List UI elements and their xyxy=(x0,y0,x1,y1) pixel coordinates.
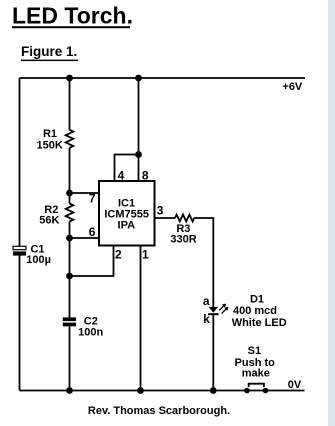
svg-text:56K: 56K xyxy=(39,215,59,227)
svg-text:S1: S1 xyxy=(248,345,261,357)
svg-text:4: 4 xyxy=(118,169,125,183)
svg-text:3: 3 xyxy=(157,204,164,218)
svg-text:make: make xyxy=(242,368,270,380)
svg-text:LED Torch.: LED Torch. xyxy=(12,3,133,29)
svg-text:C2: C2 xyxy=(84,315,98,327)
svg-text:a: a xyxy=(203,294,210,308)
svg-text:1: 1 xyxy=(142,247,149,261)
svg-text:8: 8 xyxy=(142,169,149,183)
svg-text:+6V: +6V xyxy=(282,81,303,93)
svg-text:330R: 330R xyxy=(170,233,196,245)
svg-text:D1: D1 xyxy=(250,294,264,306)
svg-text:White LED: White LED xyxy=(232,317,287,329)
svg-text:100µ: 100µ xyxy=(26,254,51,266)
svg-text:6: 6 xyxy=(89,225,96,239)
svg-text:7: 7 xyxy=(89,192,96,206)
svg-text:k: k xyxy=(203,312,210,326)
svg-text:Figure 1.: Figure 1. xyxy=(21,44,77,59)
svg-text:0V: 0V xyxy=(288,379,302,391)
svg-text:Rev. Thomas Scarborough.: Rev. Thomas Scarborough. xyxy=(88,405,230,417)
svg-text:IPA: IPA xyxy=(118,220,136,232)
svg-text:400 mcd: 400 mcd xyxy=(233,305,277,317)
svg-text:2: 2 xyxy=(115,248,122,262)
svg-text:R1: R1 xyxy=(43,128,57,140)
svg-text:150K: 150K xyxy=(37,139,63,151)
svg-text:100n: 100n xyxy=(78,327,103,339)
